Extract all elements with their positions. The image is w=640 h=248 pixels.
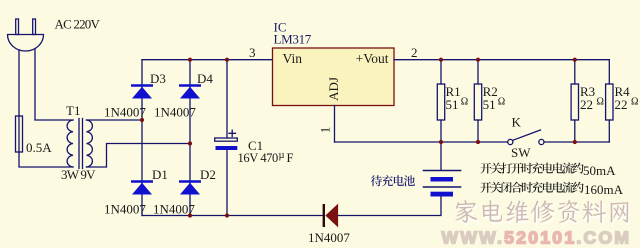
wire C1 bottom lead — [226, 150, 228, 216]
svg-text:1N4007: 1N4007 — [154, 105, 196, 120]
wire secondary bottom to bridge node B — [87, 144, 191, 168]
wire plug-left to fuse — [18, 50, 20, 116]
svg-text:51: 51 — [446, 97, 459, 112]
switch K (SW) — [508, 130, 544, 145]
wire bridge column 1 (D3/D1) — [141, 60, 143, 216]
svg-text:Ω: Ω — [597, 97, 604, 108]
caption line 2: switch closed 160mA — [480, 182, 491, 193]
svg-text:51: 51 — [483, 97, 496, 112]
diode D4 — [179, 86, 201, 99]
wire C1 top lead — [226, 60, 228, 138]
diode D1 — [131, 182, 153, 195]
svg-text:22: 22 — [615, 97, 628, 112]
svg-text:1N4007: 1N4007 — [104, 105, 146, 120]
svg-text:D4: D4 — [197, 71, 213, 86]
caption line 1: switch open 50mA — [480, 163, 491, 174]
transformer T1 secondary winding — [87, 120, 93, 167]
AC plug P1 — [8, 19, 44, 51]
svg-text:Ω: Ω — [461, 97, 468, 108]
svg-text:F: F — [287, 151, 294, 165]
svg-text:SW: SW — [511, 145, 531, 160]
svg-text:+Vout: +Vout — [356, 51, 389, 66]
wire bottom rail left of diode — [142, 215, 324, 217]
svg-text:3W 9V: 3W 9V — [61, 167, 96, 182]
svg-text:Vin: Vin — [283, 51, 303, 66]
battery BT1 (待充电池) — [424, 171, 461, 197]
diode D5 1N4007 (bottom) — [324, 204, 338, 227]
svg-text:D1: D1 — [152, 167, 168, 182]
svg-text:0.5A: 0.5A — [26, 140, 52, 155]
wire secondary top to bridge node A — [87, 119, 143, 121]
svg-text:T1: T1 — [66, 103, 80, 118]
wire bridge top rail to LM317 Vin — [142, 59, 273, 61]
wire ADJ rail left segment — [335, 141, 508, 143]
wire battery bottom lead to bottom rail — [338, 197, 441, 216]
svg-text:Ω: Ω — [498, 97, 505, 108]
wire battery top lead — [440, 142, 442, 170]
svg-text:16V 470: 16V 470 — [238, 151, 279, 165]
resistor R3 — [571, 60, 578, 142]
svg-text:1: 1 — [318, 127, 333, 134]
svg-text:D3: D3 — [150, 71, 166, 86]
resistor R2 — [474, 60, 481, 142]
wire rail right segment — [544, 141, 609, 143]
svg-text:Ω: Ω — [631, 97, 638, 108]
svg-text:3: 3 — [249, 45, 256, 60]
label battery 待充电池 — [371, 175, 382, 186]
watermark 家电维修资料网 — [457, 203, 479, 226]
diode D3 — [131, 86, 153, 99]
diode D2 — [179, 182, 201, 195]
svg-text:AC 220V: AC 220V — [55, 17, 101, 32]
svg-text:160mA: 160mA — [584, 182, 624, 197]
wire fuse to transformer primary bottom — [19, 152, 73, 167]
watermark www.520101.com — [442, 228, 632, 248]
svg-text:WWW.520101.COM: WWW.520101.COM — [442, 228, 632, 248]
wire plug-right to transformer primary top — [35, 49, 73, 121]
wire LM317 pin2 +Vout rail — [394, 59, 609, 61]
resistor R1 — [437, 60, 444, 142]
fuse F1 0.5A — [16, 116, 23, 152]
capacitor C1 — [215, 130, 238, 150]
transformer T1 primary winding — [67, 120, 73, 167]
svg-text:µ: µ — [279, 150, 285, 161]
svg-text:LM317: LM317 — [274, 32, 312, 47]
resistor R4 — [606, 60, 613, 142]
svg-text:22: 22 — [580, 97, 593, 112]
svg-text:ADJ: ADJ — [326, 77, 341, 101]
svg-text:1N4007: 1N4007 — [308, 230, 350, 245]
wire bridge column 2 (D4/D2) — [189, 60, 191, 216]
svg-text:K: K — [512, 115, 522, 130]
svg-text:50mA: 50mA — [583, 163, 616, 178]
svg-text:D2: D2 — [200, 167, 216, 182]
op-amp/regulator U1 LM317 body — [273, 48, 395, 106]
wire LM317 pin1 ADJ lead — [334, 106, 336, 143]
svg-text:2: 2 — [411, 45, 418, 60]
svg-text:1N4007: 1N4007 — [104, 202, 146, 217]
svg-text:1N4007: 1N4007 — [153, 202, 195, 217]
transformer T1 core — [79, 119, 83, 169]
